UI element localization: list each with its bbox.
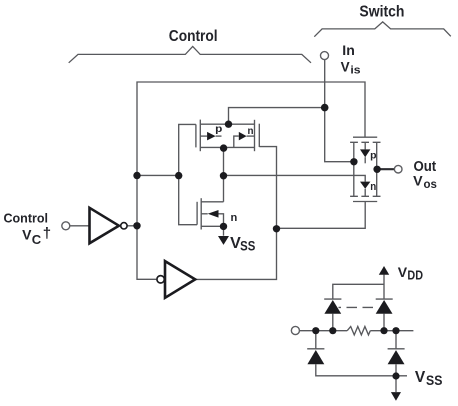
- svg-text:V: V: [398, 264, 408, 280]
- svg-text:DD: DD: [407, 268, 423, 283]
- svg-text:V: V: [22, 226, 32, 242]
- svg-text:os: os: [424, 177, 438, 191]
- svg-text:n: n: [248, 126, 254, 137]
- svg-text:Control: Control: [169, 28, 218, 45]
- svg-text:†: †: [43, 225, 51, 242]
- svg-text:V: V: [415, 369, 426, 386]
- svg-text:Control: Control: [4, 211, 49, 225]
- svg-text:is: is: [350, 65, 360, 77]
- svg-text:n: n: [370, 181, 376, 193]
- svg-text:SS: SS: [426, 372, 442, 388]
- svg-text:V: V: [341, 59, 350, 74]
- svg-text:SS: SS: [240, 238, 255, 254]
- svg-text:p: p: [215, 124, 222, 135]
- svg-text:C: C: [32, 232, 42, 247]
- svg-text:n: n: [231, 212, 238, 224]
- svg-text:p: p: [370, 151, 376, 162]
- svg-text:In: In: [342, 43, 355, 59]
- svg-text:V: V: [413, 174, 423, 190]
- svg-text:Switch: Switch: [359, 3, 404, 20]
